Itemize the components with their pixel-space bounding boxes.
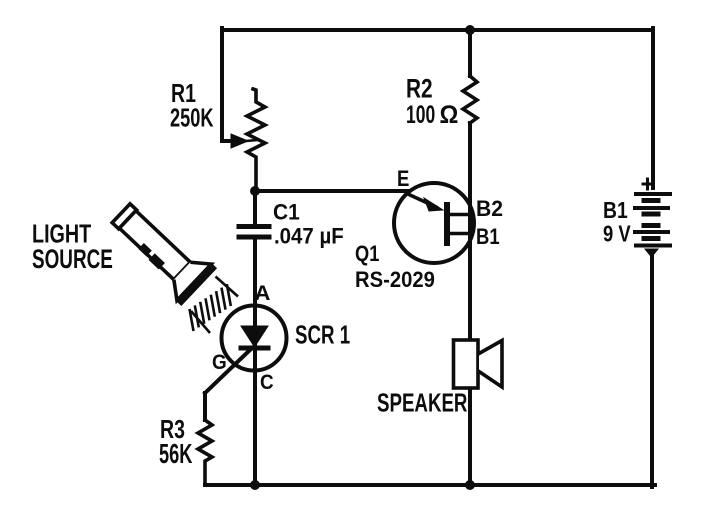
label LIGHT	[32, 219, 91, 248]
label R1	[171, 78, 196, 107]
wire R1 wiper tip	[246, 140, 257, 141]
svg-text:SCR 1: SCR 1	[295, 319, 350, 349]
label R2	[406, 74, 433, 104]
wire bottom rail	[205, 483, 655, 487]
label 250K	[170, 103, 214, 132]
transistor Q1 emitter diagonal	[410, 195, 436, 207]
flashlight tail cap	[112, 204, 136, 229]
svg-text:Ω: Ω	[440, 101, 459, 129]
wire R2 branch from top rail	[468, 28, 472, 76]
battery B1 plates	[635, 194, 670, 246]
svg-text:100: 100	[406, 100, 435, 129]
SCR1 anode triangle	[241, 326, 268, 347]
node junction bottom SCR cathode	[250, 480, 260, 490]
svg-text:E: E	[397, 168, 409, 192]
label .047 uF	[274, 224, 344, 249]
svg-text:B2: B2	[476, 196, 503, 222]
resistor R3 zigzag 56K	[198, 420, 212, 485]
transistor Q1 emitter arrowhead	[424, 198, 443, 211]
label B1 (transistor)	[476, 226, 500, 250]
label SPEAKER	[377, 387, 467, 417]
svg-text:C1: C1	[273, 200, 300, 225]
wire right vertical battery bottom	[650, 256, 654, 487]
svg-text:A: A	[255, 281, 271, 304]
label E (emitter)	[397, 168, 409, 192]
svg-text:SOURCE: SOURCE	[32, 244, 113, 274]
wire R2 to transistor and down to speaker	[468, 123, 472, 340]
speaker horn	[479, 341, 502, 388]
svg-text:Q1: Q1	[355, 243, 379, 267]
capacitor C1 top lead	[253, 191, 257, 224]
speaker driver rectangle	[454, 340, 479, 388]
label 9 V	[603, 222, 631, 247]
battery B1 bottom terminal arrow	[645, 249, 658, 257]
wire SCR anode branch (C1 bottom to bottom rail)	[253, 239, 257, 485]
svg-text:9 V: 9 V	[603, 222, 631, 247]
resistor R1 wiper arrowhead	[231, 134, 248, 148]
flashlight head cone	[165, 253, 211, 301]
label SCR 1	[295, 319, 350, 349]
svg-text:B1: B1	[603, 199, 628, 224]
flashlight light source	[103, 194, 217, 306]
label 56K	[159, 439, 192, 470]
flashlight switch	[138, 243, 151, 256]
wire gate to R3	[203, 393, 207, 420]
node junction bottom speaker	[465, 480, 475, 490]
svg-text:B1: B1	[476, 226, 500, 250]
label R3	[160, 414, 185, 443]
transistor Q1 base bar	[444, 205, 450, 243]
svg-text:250K: 250K	[170, 103, 214, 132]
wire top rail	[222, 28, 653, 32]
transistor Q1 B2 lead	[447, 213, 470, 217]
SCR1 cathode bar	[241, 346, 268, 351]
svg-text:C: C	[260, 371, 274, 394]
svg-text:G: G	[212, 351, 227, 374]
wire left vertical from top rail to R1 wiper	[220, 28, 224, 141]
wire from node to Q1 emitter	[255, 189, 408, 193]
label G (gate)	[212, 351, 227, 374]
label B2	[476, 196, 503, 222]
wire speaker to bottom rail	[468, 388, 472, 485]
label SOURCE	[32, 244, 113, 274]
resistor R2 zigzag 100 ohm	[463, 76, 477, 123]
svg-text:RS-2029: RS-2029	[355, 268, 435, 292]
label 100 ohm	[406, 100, 435, 129]
transistor Q1 B1 lead	[447, 232, 470, 236]
svg-text:.047 µF: .047 µF	[274, 224, 344, 249]
battery B1 polarity plus mark	[643, 179, 652, 189]
svg-text:SPEAKER: SPEAKER	[377, 387, 467, 417]
transistor Q1 circle	[394, 183, 474, 263]
svg-text:56K: 56K	[159, 439, 192, 470]
flashlight bezel	[176, 263, 217, 306]
label RS-2029	[355, 268, 435, 292]
wire SCR gate diagonal	[205, 348, 252, 393]
label C1	[273, 200, 300, 225]
wire right vertical battery top	[651, 28, 655, 188]
light rays	[190, 277, 239, 334]
capacitor C1 plates	[239, 224, 269, 229]
flashlight body	[119, 211, 190, 280]
node junction top R2	[465, 25, 475, 35]
label C (cathode)	[260, 371, 274, 394]
label B1 (battery)	[603, 199, 628, 224]
SCR1 circle	[222, 306, 287, 371]
label Q1	[355, 243, 379, 267]
wire R1 wiper arm	[222, 139, 233, 143]
label A (anode)	[255, 281, 271, 304]
node junction R1/C1/E	[250, 186, 260, 196]
resistor R1 zigzag (250K rheostat)	[247, 89, 265, 191]
